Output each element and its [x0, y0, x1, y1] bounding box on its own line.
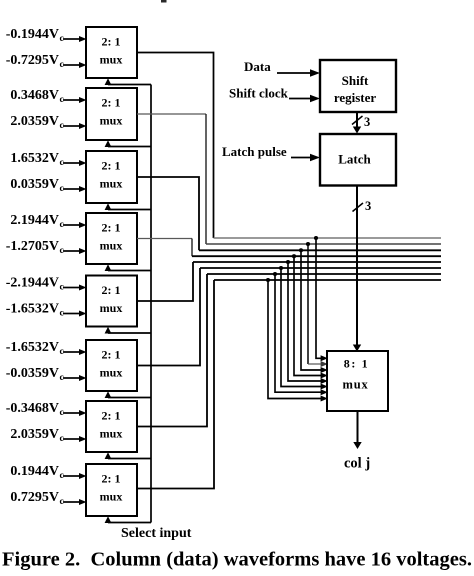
wire: input arrow into U5 pin 1 [63, 285, 87, 291]
wire: U3 output to bus channel [137, 177, 199, 250]
wire: select branch to U6 [105, 391, 151, 398]
node: width label 3 [364, 115, 370, 129]
2:1 mux U1 [86, 27, 137, 78]
svg-text:Shift clock: Shift clock [229, 86, 289, 101]
node J6: bus tap junction dot [279, 266, 283, 270]
node: col j label [344, 456, 370, 472]
wire: bus line H1 [214, 237, 442, 239]
svg-text:2: 1: 2: 1 [102, 283, 121, 297]
wire: col j output arrow [353, 411, 361, 449]
2:1 mux U8 [86, 464, 137, 516]
node J8: bus tap junction dot [266, 278, 270, 282]
node J3: bus tap junction dot [299, 248, 303, 252]
svg-text:mux: mux [100, 53, 123, 67]
svg-text:col j: col j [344, 456, 370, 472]
node: Select input label [121, 526, 192, 541]
wire: Data arrow into shift register [277, 69, 320, 77]
node V5a: voltage label -2.1944Vc [6, 276, 64, 293]
svg-text:-0.3468V: -0.3468V [6, 401, 59, 416]
wire: bus line H6 [200, 267, 441, 269]
svg-text:mux: mux [342, 378, 368, 392]
wire: tap H5 down to 8:1 mux input 5 [288, 262, 328, 384]
wire: input arrow into U3 pin 2 [63, 186, 87, 192]
wire: U8 output to bus channel [137, 280, 214, 489]
wire: tap H7 down to 8:1 mux input 7 [275, 274, 328, 395]
wire: bus line H2 [206, 243, 441, 245]
svg-text:register: register [334, 90, 377, 105]
svg-text:mux: mux [100, 366, 123, 380]
2:1 mux U2 [86, 88, 137, 140]
2:1 mux U6 [86, 340, 137, 391]
node V3b: voltage label 0.0359Vc [10, 177, 63, 194]
wire: select branch to U5 [105, 327, 151, 334]
wire: select branch to U2 [105, 140, 151, 147]
svg-text:2: 1: 2: 1 [102, 35, 121, 49]
svg-text:Latch pulse: Latch pulse [222, 144, 287, 159]
wire: select branch to U7 [105, 452, 151, 459]
node V5b: voltage label -1.6532Vc [6, 302, 64, 319]
wire: shift register to latch, 3-bit [353, 112, 361, 134]
node V7b: voltage label 2.0359Vc [10, 427, 63, 444]
wire: tap H4 down to 8:1 mux input 4 [294, 256, 328, 378]
svg-text:2.0359V: 2.0359V [10, 427, 59, 442]
wire: input arrow into U7 pin 1 [63, 410, 87, 416]
wire: bus line H8 [214, 279, 441, 281]
wire: select input vertical line [150, 85, 152, 523]
svg-text:Shift: Shift [342, 73, 369, 88]
svg-text:2: 1: 2: 1 [102, 472, 121, 486]
wire: tap H6 down to 8:1 mux input 6 [281, 268, 328, 390]
node: width label 3 [365, 199, 371, 213]
wire: U4 output to bus channel [137, 239, 192, 257]
wire: input arrow into U4 pin 1 [63, 222, 87, 228]
node V2b: voltage label 2.0359Vc [10, 114, 63, 131]
svg-text:2.1944V: 2.1944V [10, 213, 59, 228]
wire: input arrow into U8 pin 1 [63, 473, 87, 479]
svg-text:-0.7295V: -0.7295V [6, 53, 59, 68]
wire: Shift clock arrow into shift register [289, 95, 320, 103]
wire: select branch to U4 [105, 264, 151, 271]
wire: input arrow into U1 pin 1 [63, 36, 87, 42]
svg-text:1.6532V: 1.6532V [10, 151, 59, 166]
svg-text:2.0359V: 2.0359V [10, 114, 59, 129]
wire: tap H3 down to 8:1 mux input 3 [301, 250, 328, 373]
wire: input arrow into U5 pin 2 [63, 311, 87, 317]
node J4: bus tap junction dot [292, 254, 296, 258]
svg-text:-1.6532V: -1.6532V [6, 340, 59, 355]
node: Latch pulse label [222, 144, 287, 159]
svg-text:3: 3 [365, 199, 371, 213]
svg-text:mux: mux [100, 239, 123, 253]
svg-text:mux: mux [100, 177, 123, 191]
wire: input arrow into U3 pin 1 [63, 160, 87, 166]
2:1 mux U7 [86, 401, 137, 452]
node V3a: voltage label 1.6532Vc [10, 151, 63, 168]
svg-text:0.0359V: 0.0359V [10, 177, 59, 192]
node J7: bus tap junction dot [273, 272, 277, 276]
wire: input arrow into U7 pin 2 [63, 436, 87, 442]
wire: tap H2 down to 8:1 mux input 2 [308, 244, 328, 367]
svg-text:-1.6532V: -1.6532V [6, 302, 59, 317]
svg-text:2: 1: 2: 1 [102, 96, 121, 110]
wire: U2 output to bus channel [137, 114, 206, 244]
shift register U9 [320, 60, 396, 112]
wire: bus line H4 [192, 255, 441, 257]
wire: input arrow into U6 pin 1 [63, 349, 87, 355]
node V7a: voltage label -0.3468Vc [6, 401, 64, 418]
node V1b: voltage label -0.7295Vc [6, 53, 64, 70]
wire: bus line H7 [207, 273, 441, 275]
wire: U1 output to bus channel [137, 53, 214, 239]
node J2: bus tap junction dot [306, 242, 310, 246]
svg-text:Data: Data [244, 59, 271, 74]
svg-text:3: 3 [364, 115, 370, 129]
node: Data label [244, 59, 271, 74]
wire: input arrow into U1 pin 2 [63, 62, 87, 68]
8:1 mux U11 [327, 351, 388, 411]
wire: select branch to U8 [105, 516, 151, 523]
svg-text:mux: mux [100, 114, 123, 128]
svg-text:0.1944V: 0.1944V [10, 464, 59, 479]
svg-text:-0.1944V: -0.1944V [6, 27, 59, 42]
caption: figure title [2, 549, 472, 571]
latch U10 [320, 134, 396, 186]
svg-text:0.7295V: 0.7295V [10, 490, 59, 505]
node V1a: voltage label -0.1944Vc [6, 27, 64, 44]
svg-text:Select input: Select input [121, 526, 192, 541]
svg-text:-2.1944V: -2.1944V [6, 276, 59, 291]
wire: bus line H3 [199, 249, 441, 251]
wire: input arrow into U8 pin 2 [63, 499, 87, 505]
svg-text:2: 1: 2: 1 [102, 159, 121, 173]
svg-text:Figure 2. Column (data) wavef: Figure 2. Column (data) waveforms have 1… [2, 549, 472, 571]
svg-text:2: 1: 2: 1 [102, 409, 121, 423]
wire: U6 output to bus channel [137, 268, 200, 366]
node V6a: voltage label -1.6532Vc [6, 340, 64, 357]
wire: latch to 8:1 mux select, 3-bit [353, 186, 361, 352]
svg-text:-0.0359V: -0.0359V [6, 366, 59, 381]
node V6b: voltage label -0.0359Vc [6, 366, 64, 383]
cropped text remnant at top edge [161, 0, 167, 3]
wire: input arrow into U2 pin 1 [63, 97, 87, 103]
svg-text:2: 1: 2: 1 [102, 348, 121, 362]
svg-text:Latch: Latch [338, 152, 371, 167]
node: Shift clock label [229, 86, 289, 101]
svg-text:2: 1: 2: 1 [102, 221, 121, 235]
wire: select branch to U1 [105, 78, 151, 85]
wire: input arrow into U4 pin 2 [63, 248, 87, 254]
node J5: bus tap junction dot [286, 260, 290, 264]
wire: input arrow into U6 pin 2 [63, 375, 87, 381]
node J1: bus tap junction dot [314, 236, 318, 240]
node V8a: voltage label 0.1944Vc [10, 464, 63, 481]
wire: U7 output to bus channel [137, 274, 207, 427]
svg-text:0.3468V: 0.3468V [10, 88, 59, 103]
wire: select branch to U3 [105, 203, 151, 210]
node V4a: voltage label 2.1944Vc [10, 213, 63, 230]
svg-text:mux: mux [100, 427, 123, 441]
svg-text:-1.2705V: -1.2705V [6, 239, 59, 254]
svg-text:mux: mux [100, 490, 123, 504]
wire: tap H1 down to 8:1 mux input 1 [316, 238, 328, 361]
2:1 mux U3 [86, 151, 137, 203]
svg-text:mux: mux [100, 301, 123, 315]
svg-text:8: 1: 8: 1 [344, 357, 369, 371]
slash: bus width tick [353, 203, 364, 212]
wire: U5 output to bus channel [137, 262, 193, 301]
node V8b: voltage label 0.7295Vc [10, 490, 63, 507]
2:1 mux U5 [86, 276, 137, 327]
wire: bus line H5 [193, 261, 441, 263]
wire: tap H8 down to 8:1 mux input 8 [268, 280, 328, 402]
node V4b: voltage label -1.2705Vc [6, 239, 64, 256]
wire: Latch pulse arrow into latch [291, 154, 320, 162]
slash: bus width tick [352, 116, 363, 125]
wire: input arrow into U2 pin 2 [63, 123, 87, 129]
2:1 mux U4 [86, 213, 137, 264]
node V2a: voltage label 0.3468Vc [10, 88, 63, 105]
